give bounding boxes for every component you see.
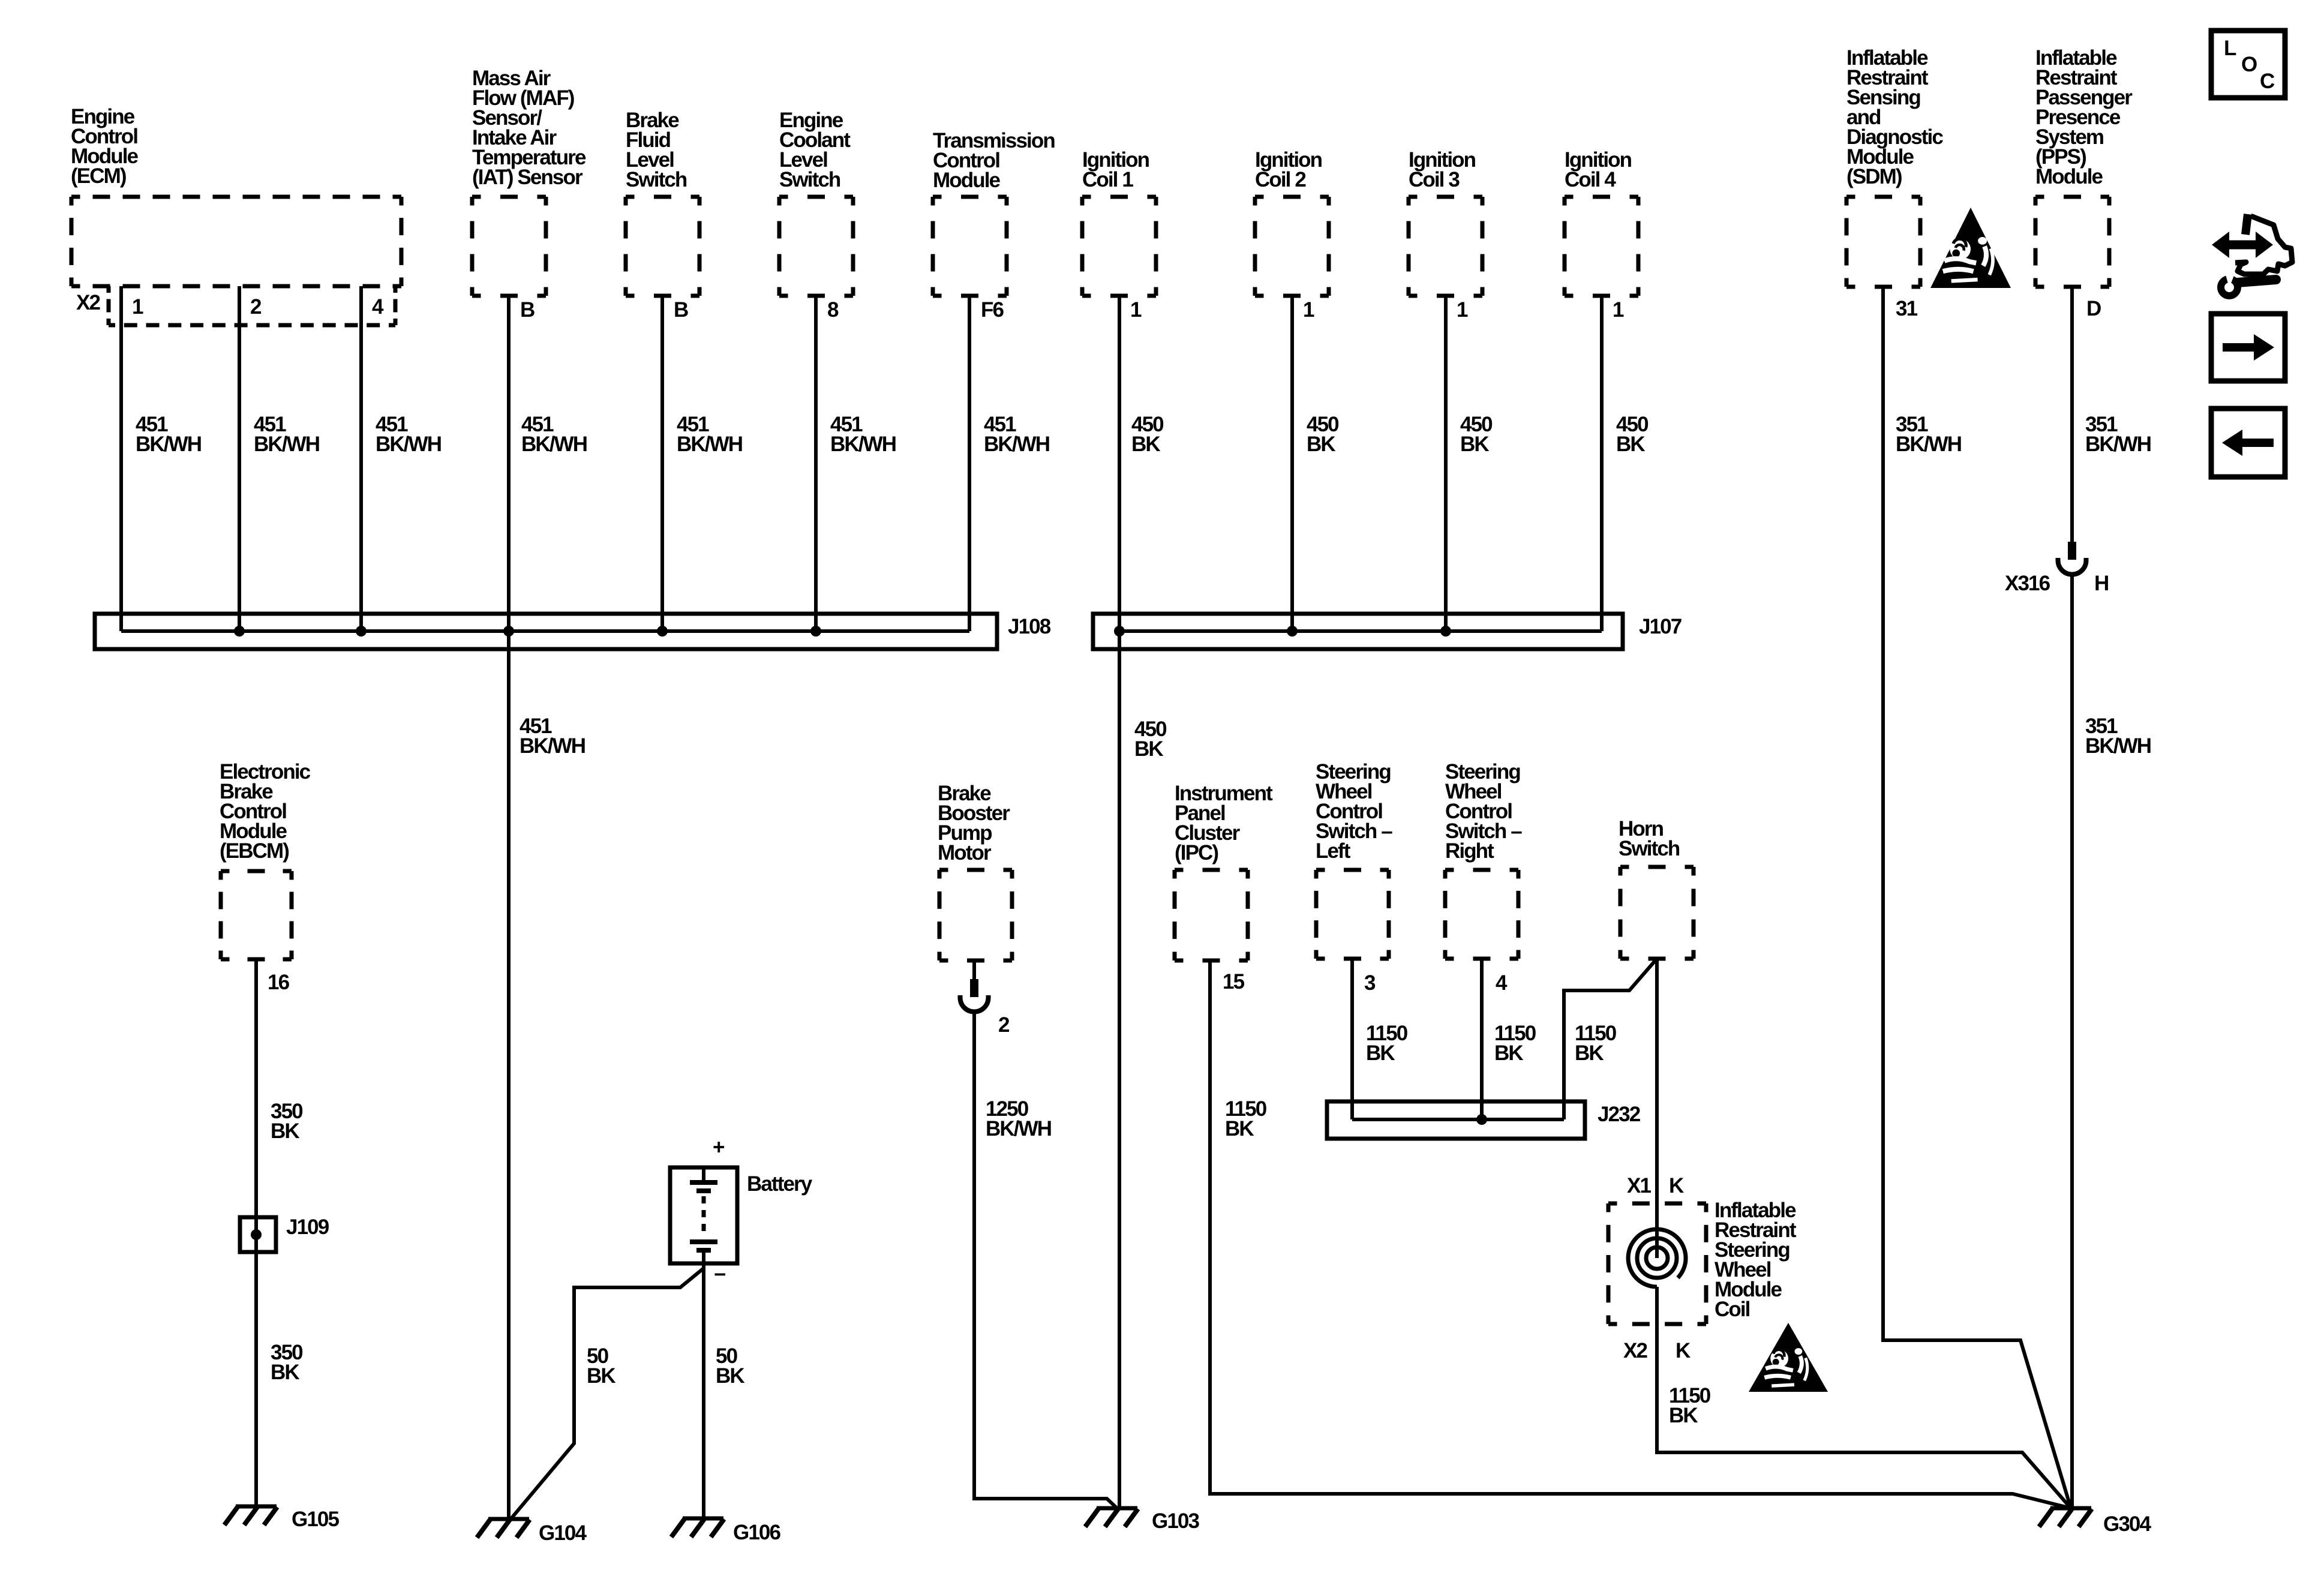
- svg-text:O: O: [2241, 53, 2257, 76]
- svg-text:BK: BK: [587, 1364, 615, 1388]
- svg-text:(EBCM): (EBCM): [220, 839, 289, 863]
- svg-text:X2: X2: [76, 291, 100, 314]
- svg-text:X1: X1: [1627, 1174, 1651, 1197]
- svg-text:D: D: [2086, 297, 2101, 320]
- svg-text:J109: J109: [286, 1215, 329, 1239]
- svg-text:J232: J232: [1598, 1103, 1641, 1126]
- svg-text:(IPC): (IPC): [1175, 841, 1218, 864]
- svg-text:BK/WH: BK/WH: [1896, 433, 1961, 456]
- svg-text:Coil 3: Coil 3: [1409, 168, 1460, 191]
- svg-text:Module: Module: [2035, 165, 2103, 188]
- svg-text:1: 1: [1130, 298, 1142, 322]
- svg-text:BK: BK: [1134, 737, 1163, 761]
- svg-text:G106: G106: [733, 1521, 780, 1544]
- svg-text:J107: J107: [1639, 615, 1682, 638]
- svg-text:4: 4: [1496, 971, 1508, 995]
- svg-text:BK: BK: [1366, 1041, 1395, 1065]
- svg-text:Module: Module: [933, 169, 1001, 192]
- svg-text:J108: J108: [1008, 615, 1051, 638]
- svg-text:BK/WH: BK/WH: [520, 734, 585, 758]
- svg-text:Switch: Switch: [1619, 837, 1680, 860]
- svg-text:15: 15: [1223, 970, 1245, 993]
- svg-text:X316: X316: [2005, 572, 2050, 595]
- svg-text:BK/WH: BK/WH: [830, 433, 896, 456]
- svg-text:K: K: [1669, 1174, 1684, 1197]
- svg-text:1: 1: [1613, 298, 1624, 322]
- svg-text:F6: F6: [981, 298, 1004, 322]
- svg-text:BK/WH: BK/WH: [984, 433, 1049, 456]
- svg-text:BK/WH: BK/WH: [677, 433, 742, 456]
- svg-text:Coil 1: Coil 1: [1082, 168, 1133, 191]
- svg-text:BK: BK: [716, 1364, 744, 1388]
- svg-text:G105: G105: [292, 1508, 339, 1531]
- svg-text:(SDM): (SDM): [1846, 165, 1902, 188]
- svg-text:BK/WH: BK/WH: [521, 433, 587, 456]
- svg-text:BK: BK: [1307, 433, 1335, 456]
- svg-text:BK/WH: BK/WH: [254, 433, 319, 456]
- svg-text:31: 31: [1896, 297, 1918, 320]
- svg-text:BK: BK: [1131, 433, 1160, 456]
- svg-text:L: L: [2224, 37, 2236, 60]
- svg-text:1: 1: [132, 295, 143, 319]
- svg-text:(IAT) Sensor: (IAT) Sensor: [472, 166, 583, 189]
- svg-text:2: 2: [250, 295, 262, 319]
- svg-text:Motor: Motor: [938, 841, 992, 864]
- svg-text:BK/WH: BK/WH: [376, 433, 441, 456]
- svg-text:BK/WH: BK/WH: [2085, 433, 2151, 456]
- svg-text:BK: BK: [1460, 433, 1489, 456]
- svg-text:Switch: Switch: [779, 168, 840, 191]
- svg-text:B: B: [520, 298, 535, 322]
- svg-text:−: −: [714, 1263, 725, 1286]
- svg-text:BK/WH: BK/WH: [2085, 734, 2151, 758]
- svg-text:H: H: [2094, 572, 2108, 595]
- svg-text:1: 1: [1457, 298, 1468, 322]
- svg-text:B: B: [674, 298, 688, 322]
- svg-text:BK: BK: [1494, 1041, 1523, 1065]
- svg-text:4: 4: [372, 295, 384, 319]
- svg-text:G104: G104: [539, 1521, 587, 1545]
- svg-text:Switch: Switch: [626, 168, 687, 191]
- svg-text:G304: G304: [2103, 1512, 2151, 1536]
- svg-text:BK/WH: BK/WH: [986, 1117, 1051, 1140]
- svg-text:C: C: [2260, 70, 2275, 93]
- svg-text:Battery: Battery: [747, 1172, 813, 1196]
- svg-text:(ECM): (ECM): [71, 164, 126, 188]
- svg-text:BK: BK: [1225, 1117, 1254, 1140]
- svg-text:BK: BK: [271, 1361, 299, 1384]
- svg-text:Coil 2: Coil 2: [1255, 168, 1306, 191]
- svg-text:X2: X2: [1623, 1339, 1647, 1362]
- svg-text:BK: BK: [1669, 1404, 1698, 1427]
- svg-text:BK: BK: [271, 1119, 299, 1143]
- svg-text:Right: Right: [1445, 839, 1494, 863]
- svg-text:2: 2: [998, 1013, 1010, 1037]
- svg-text:8: 8: [827, 298, 839, 322]
- svg-text:Coil: Coil: [1715, 1298, 1750, 1321]
- svg-text:BK/WH: BK/WH: [136, 433, 201, 456]
- svg-text:Coil 4: Coil 4: [1565, 168, 1616, 191]
- svg-text:Left: Left: [1316, 839, 1351, 863]
- svg-text:3: 3: [1364, 971, 1376, 995]
- svg-text:+: +: [713, 1136, 725, 1159]
- svg-text:BK: BK: [1616, 433, 1645, 456]
- svg-text:16: 16: [268, 971, 290, 994]
- svg-text:K: K: [1676, 1339, 1691, 1362]
- svg-text:BK: BK: [1575, 1041, 1604, 1065]
- svg-text:1: 1: [1303, 298, 1314, 322]
- svg-text:G103: G103: [1152, 1509, 1199, 1533]
